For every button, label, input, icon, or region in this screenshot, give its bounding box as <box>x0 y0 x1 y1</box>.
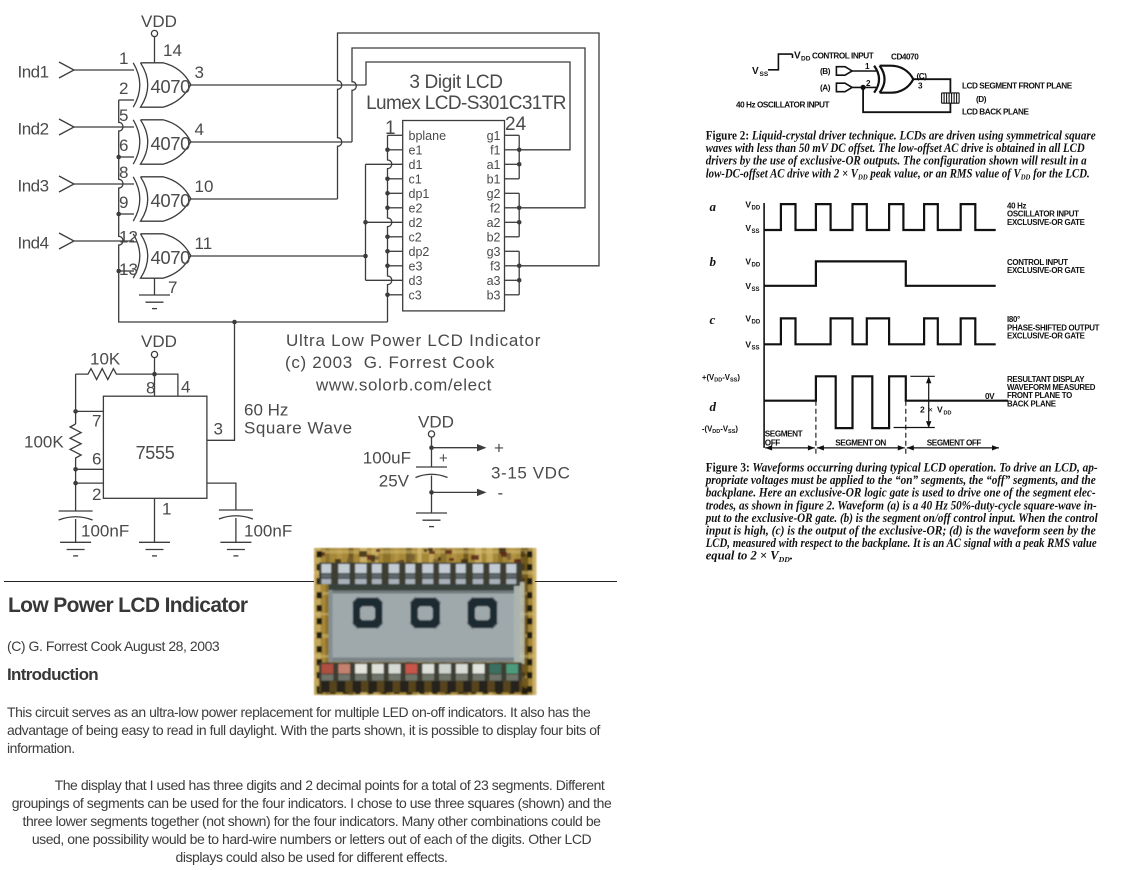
waveform c <box>764 318 996 344</box>
IC U3 7555 timer <box>103 396 206 498</box>
svg-text:e1: e1 <box>409 143 423 157</box>
svg-text:bplane: bplane <box>409 129 447 143</box>
svg-text:100nF: 100nF <box>244 522 292 541</box>
pin stub left bplane <box>388 134 403 136</box>
wire bus to gate pin 13 <box>119 270 134 272</box>
pin stub right a3 <box>505 279 520 281</box>
svg-text:c: c <box>710 312 716 327</box>
svg-text:OFF: OFF <box>765 439 780 448</box>
wire gate1 output to inner loop <box>191 84 366 86</box>
pin stub right a2 <box>505 221 520 223</box>
svg-text:+: + <box>439 450 448 467</box>
wire left rail <box>75 374 77 424</box>
XOR gate U1d 4070 <box>133 234 191 278</box>
svg-text:a3: a3 <box>487 274 501 288</box>
svg-text:d1: d1 <box>409 158 423 172</box>
svg-text:7: 7 <box>92 412 101 431</box>
svg-text:25V: 25V <box>379 472 410 491</box>
wire pin 6 <box>76 468 104 470</box>
VDD power symbol (pin 14) <box>141 12 182 63</box>
pin stub right g3 <box>505 250 520 252</box>
svg-text:6: 6 <box>119 136 128 155</box>
svg-text:b3: b3 <box>487 288 501 302</box>
svg-text:f2: f2 <box>490 201 500 215</box>
svg-text:4: 4 <box>195 120 204 139</box>
wire gate4 output to d-bus <box>191 255 366 257</box>
svg-text:24: 24 <box>505 114 527 135</box>
svg-text:EXCLUSIVE-OR GATE: EXCLUSIVE-OR GATE <box>1007 331 1085 340</box>
svg-text:CONTROL INPUT: CONTROL INPUT <box>812 52 874 61</box>
svg-text:13: 13 <box>119 260 138 279</box>
XOR gate CD4070 (figure) <box>874 66 913 93</box>
pin stub left e2 <box>388 207 403 209</box>
waveform a <box>764 204 996 230</box>
junction on input bus at pin 6 <box>116 155 121 160</box>
wire minus arrow <box>432 476 478 493</box>
svg-text:×: × <box>928 405 933 415</box>
wire backplane bus with hops over d pins <box>388 135 392 322</box>
svg-text:f3: f3 <box>490 259 500 273</box>
ground C2 <box>220 542 251 556</box>
svg-text:7: 7 <box>168 278 177 297</box>
photo of LCD on perfboard <box>314 548 537 695</box>
pin stub right f2 <box>505 207 520 209</box>
junction backplane bus at dp2 <box>385 249 390 254</box>
dimension 2xVDD <box>894 376 935 427</box>
junction d-bus at d2 <box>363 220 368 225</box>
junction backplane bus at e2 <box>385 206 390 211</box>
svg-text:7555: 7555 <box>136 443 175 463</box>
wire pin 5 to C2 <box>207 483 236 510</box>
svg-text:100nF: 100nF <box>81 522 129 541</box>
wire Ind3 to gate pin 8 <box>74 183 134 185</box>
resistor R2 100K <box>70 424 81 511</box>
svg-text:3 Digit LCD: 3 Digit LCD <box>409 72 502 93</box>
svg-text:4070: 4070 <box>151 133 191 154</box>
svg-text:e3: e3 <box>409 259 423 273</box>
connector A <box>836 83 852 92</box>
svg-text:d2: d2 <box>409 216 423 230</box>
wire gate output to LCD front plane <box>913 79 950 92</box>
svg-text:1: 1 <box>119 49 128 68</box>
pin stub left dp1 <box>388 192 403 194</box>
wire XOR input bus (60Hz) with hops <box>119 100 388 322</box>
XOR gate U1b 4070 <box>133 120 191 164</box>
svg-text:a2: a2 <box>487 216 501 230</box>
heading Introduction <box>7 665 98 685</box>
wire gate2 output <box>191 141 352 143</box>
ground gate pin 7 <box>139 278 177 309</box>
svg-text:2: 2 <box>92 485 101 504</box>
svg-text:f1: f1 <box>490 143 500 157</box>
svg-text:10K: 10K <box>90 350 121 369</box>
svg-text:d: d <box>710 399 717 414</box>
svg-text:V: V <box>745 223 751 233</box>
pin stub right b1 <box>505 178 520 180</box>
byline <box>7 638 219 654</box>
wire pin 1 to ground <box>154 498 156 542</box>
dashed region dividers <box>815 401 817 455</box>
ground pin 1 <box>139 542 170 556</box>
svg-text:100uF: 100uF <box>363 449 411 468</box>
svg-text:Lumex LCD-S301C31TR: Lumex LCD-S301C31TR <box>366 93 566 114</box>
pin stub left c3 <box>388 294 403 296</box>
pin stub left d2 <box>366 221 403 223</box>
wire gate3 output <box>191 198 338 200</box>
wire outer loop (gate3 to f3 group) with hops <box>338 33 600 266</box>
wire inner loop (gate1 to f1 group) <box>366 62 570 150</box>
junction group bus at a1 <box>517 162 522 167</box>
wire Ind2 to gate pin 5 <box>74 126 134 128</box>
svg-text:c3: c3 <box>409 288 422 302</box>
svg-text:a1: a1 <box>487 158 501 172</box>
svg-text:Ind2: Ind2 <box>18 120 49 139</box>
svg-text:V: V <box>745 200 751 210</box>
svg-text:Ultra Low Power LCD Indicator: Ultra Low Power LCD Indicator <box>286 331 541 350</box>
svg-text:3: 3 <box>918 82 923 91</box>
pin stub left dp2 <box>388 250 403 252</box>
pin stub right g2 <box>505 192 520 194</box>
junction group bus at f3 <box>517 264 522 269</box>
svg-text:(B): (B) <box>820 67 831 76</box>
VDD power symbol 7555 <box>141 332 177 374</box>
svg-text:3: 3 <box>214 420 223 439</box>
junction group bus at f1 <box>517 148 522 153</box>
svg-text:SS: SS <box>752 287 760 293</box>
svg-text:3: 3 <box>195 63 204 82</box>
svg-text:b2: b2 <box>487 230 501 244</box>
wire bus to gate pin 9 <box>119 213 134 215</box>
paragraph 1 <box>7 703 632 757</box>
svg-text:c1: c1 <box>409 172 422 186</box>
waveform d <box>764 376 1008 428</box>
svg-text:Ind4: Ind4 <box>18 234 49 253</box>
svg-text:0V: 0V <box>985 392 995 401</box>
svg-text:VDD: VDD <box>418 413 454 432</box>
pin stub left e1 <box>388 149 403 151</box>
pin stub right a1 <box>505 163 520 165</box>
junction on input bus at pin 9 <box>116 212 121 217</box>
svg-text:6: 6 <box>92 450 101 469</box>
junction group bus at f2 <box>517 206 522 211</box>
svg-text:EXCLUSIVE-OR GATE: EXCLUSIVE-OR GATE <box>1007 218 1085 227</box>
wire pin 3 output <box>207 322 235 440</box>
svg-text:3-15 VDC: 3-15 VDC <box>491 464 570 483</box>
XOR gate U1c 4070 <box>133 177 191 221</box>
svg-text:SEGMENT: SEGMENT <box>765 430 803 439</box>
svg-text:+(VDD-VSS): +(VDD-VSS) <box>702 373 740 384</box>
resistor R1 10K <box>76 369 155 380</box>
junction supply + <box>429 445 434 450</box>
svg-text:Ind3: Ind3 <box>18 177 49 196</box>
svg-text:BACK PLANE: BACK PLANE <box>1007 399 1056 408</box>
node Ind2 input connector <box>59 119 74 135</box>
svg-text:dp1: dp1 <box>409 187 430 201</box>
svg-text:4: 4 <box>181 378 190 397</box>
wire plus arrow <box>432 447 478 449</box>
svg-text:Square Wave: Square Wave <box>244 419 353 438</box>
wire LCD back plane <box>863 87 950 112</box>
svg-text:V: V <box>745 314 751 324</box>
svg-text:(A): (A) <box>820 84 831 93</box>
junction backplane bus at dp1 <box>385 191 390 196</box>
ground supply <box>416 513 447 527</box>
wire right group 1 (g1-b1) <box>518 135 520 179</box>
junction backplane bus at e3 <box>385 264 390 269</box>
pin stub right f1 <box>505 149 520 151</box>
LCD module U2 Lumex LCD-S301C31TR <box>403 121 505 311</box>
wire Ind1 to gate pin 1 <box>74 69 134 71</box>
svg-text:100K: 100K <box>24 433 64 452</box>
junction backplane bus at c2 <box>385 235 390 240</box>
wire Ind4 to gate pin 12 <box>74 240 134 242</box>
paragraph 2 <box>0 776 623 866</box>
svg-text:40 Hz OSCILLATOR INPUT: 40 Hz OSCILLATOR INPUT <box>736 101 830 110</box>
segment arrows <box>765 447 815 449</box>
LCD element symbol <box>942 93 960 103</box>
svg-text:b: b <box>710 254 717 269</box>
junction backplane bus at c1 <box>385 177 390 182</box>
svg-text:a: a <box>710 199 717 214</box>
capacitor C1 100nF <box>59 511 93 520</box>
junction bus / 7555 output riser <box>232 320 237 325</box>
svg-text:www.solorb.com/elect: www.solorb.com/elect <box>315 376 492 395</box>
wire d-segment bus (gate4 net) <box>365 164 367 280</box>
svg-text:EXCLUSIVE-OR GATE: EXCLUSIVE-OR GATE <box>1007 266 1085 275</box>
pin stub left d1 <box>366 163 403 165</box>
junction group bus at a3 <box>517 278 522 283</box>
wire right group 2 (g2-b2) <box>518 193 520 237</box>
svg-text:DD: DD <box>752 320 761 326</box>
junction group bus at a2 <box>517 220 522 225</box>
pin stub left d3 <box>366 279 403 281</box>
svg-text:b1: b1 <box>487 172 501 186</box>
connector B <box>836 67 852 76</box>
junction on input bus at pin 13 <box>116 269 121 274</box>
junction backplane bus at e1 <box>385 148 390 153</box>
svg-text:VDD: VDD <box>141 12 177 31</box>
svg-text:SS: SS <box>752 229 760 235</box>
svg-text:V: V <box>794 51 801 62</box>
svg-text:1: 1 <box>162 500 171 519</box>
svg-text:10: 10 <box>195 177 214 196</box>
XOR gate U1a 4070 <box>133 63 191 107</box>
svg-text:1: 1 <box>865 62 870 71</box>
svg-text:V: V <box>745 257 751 267</box>
heading Low Power LCD Indicator <box>8 594 247 618</box>
svg-text:Ind1: Ind1 <box>18 63 49 82</box>
svg-text:DD: DD <box>752 206 761 212</box>
svg-text:9: 9 <box>119 193 128 212</box>
wire middle loop (gate2 to f2 group) with hop <box>352 48 585 208</box>
Figure 2 schematic: Vss step symbol <box>768 54 793 70</box>
svg-text:V: V <box>745 281 751 291</box>
svg-text:(D): (D) <box>976 95 987 104</box>
svg-text:c2: c2 <box>409 230 422 244</box>
svg-text:LCD SEGMENT FRONT PLANE: LCD SEGMENT FRONT PLANE <box>962 82 1073 91</box>
svg-text:g2: g2 <box>487 187 501 201</box>
wire pin 7 <box>76 410 104 412</box>
svg-text:DD: DD <box>752 263 761 269</box>
svg-text:SS: SS <box>760 71 769 78</box>
wire bus to gate pin 2 <box>119 99 134 101</box>
pin stub right b3 <box>505 294 520 296</box>
horizontal rule <box>4 581 314 583</box>
wire A to gate pin 2 <box>852 86 876 88</box>
svg-text:V: V <box>745 340 751 350</box>
svg-text:4070: 4070 <box>151 247 191 268</box>
pin stub right f3 <box>505 265 520 267</box>
pin stub left c2 <box>388 236 403 238</box>
wire pin 8 <box>154 374 156 396</box>
svg-text:4070: 4070 <box>151 76 191 97</box>
svg-text:equal to 2 × VDD.: equal to 2 × VDD. <box>706 549 793 564</box>
svg-text:e2: e2 <box>409 201 423 215</box>
svg-text:2: 2 <box>920 405 925 415</box>
VDD power symbol supply <box>418 413 454 448</box>
pin stub right g1 <box>505 134 520 136</box>
svg-text:LCD BACK PLANE: LCD BACK PLANE <box>962 108 1029 117</box>
capacitor C3 100uF 25V <box>431 448 433 467</box>
capacitor C2 100nF <box>219 510 253 519</box>
wire pin 4 <box>155 374 178 396</box>
svg-text:SS: SS <box>752 346 760 352</box>
pin stub left c1 <box>388 178 403 180</box>
svg-text:dp2: dp2 <box>409 245 430 259</box>
svg-text:DD: DD <box>944 411 952 417</box>
ground C1 <box>60 542 91 556</box>
wire pin 2 <box>76 482 104 484</box>
node Ind4 input connector <box>59 233 74 249</box>
svg-text:SEGMENT OFF: SEGMENT OFF <box>927 438 982 447</box>
wire B to gate pin 1 <box>852 70 876 72</box>
junction A / backplane <box>861 85 866 90</box>
svg-text:60 Hz: 60 Hz <box>244 401 288 420</box>
wire to supply ground <box>431 492 433 513</box>
pin stub left e3 <box>388 265 403 267</box>
svg-text:DD: DD <box>801 56 811 63</box>
svg-text:(c) 2003 G. Forrest Cook: (c) 2003 G. Forrest Cook <box>285 353 495 372</box>
svg-text:11: 11 <box>195 234 213 253</box>
junction backplane bus at c3 <box>385 293 390 298</box>
svg-text:SEGMENT ON: SEGMENT ON <box>835 438 886 447</box>
pin stub right b2 <box>505 236 520 238</box>
svg-text:-: - <box>498 484 504 503</box>
svg-text:d3: d3 <box>409 274 423 288</box>
svg-text:4070: 4070 <box>151 190 191 211</box>
Figure 3 axis <box>763 203 765 448</box>
svg-text:low-DC-offset AC drive with 2: low-DC-offset AC drive with 2 × VDD peak… <box>706 166 1090 181</box>
svg-text:14: 14 <box>163 41 182 60</box>
svg-text:-(VDD-VSS): -(VDD-VSS) <box>702 425 739 436</box>
wire bus to gate pin 6 <box>119 156 134 158</box>
svg-text:CD4070: CD4070 <box>891 53 919 62</box>
svg-text:8: 8 <box>146 379 155 398</box>
waveform b <box>764 261 996 285</box>
svg-text:2: 2 <box>119 79 128 98</box>
node Ind3 input connector <box>59 176 74 192</box>
svg-text:g1: g1 <box>487 129 501 143</box>
svg-text:g3: g3 <box>487 245 501 259</box>
junction d-bus at gate4 wire <box>363 254 368 259</box>
junction VDD / 10K / pin8 / pin4 <box>152 372 157 377</box>
svg-text:V: V <box>752 66 759 77</box>
wire right group 3 (g3-b3) <box>518 251 520 294</box>
node Ind1 input connector <box>59 62 74 78</box>
svg-text:V: V <box>937 405 943 415</box>
svg-text:VDD: VDD <box>141 332 177 351</box>
svg-text:+: + <box>494 439 504 458</box>
